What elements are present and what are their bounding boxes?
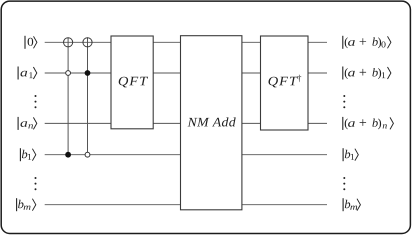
wire an segments <box>45 122 327 124</box>
control vertical line column 2 <box>87 37 89 154</box>
left vdots between b1 and bm <box>35 177 37 190</box>
QFT-dagger gate label <box>269 75 302 88</box>
right ket |(a+b)_1> text <box>345 68 386 79</box>
filled control on b1 column 1 <box>65 152 71 158</box>
wire q0 segments <box>45 41 327 43</box>
wire b1 segments <box>45 154 327 156</box>
left ket |bm> letters <box>18 200 30 210</box>
left ket |0> angle bracket <box>34 36 37 48</box>
right ket |(a+b)1> pipe <box>342 67 344 80</box>
right ket |b1> letters <box>345 150 355 160</box>
right ket |bm> letters <box>345 200 357 210</box>
right vdots between (a+b)1 and (a+b)n <box>343 95 345 108</box>
right ket |bm> angle bracket <box>357 199 360 211</box>
right ket |(a+b)_1> angle bracket <box>388 67 391 79</box>
right ket |(a+b)_0> text <box>345 37 386 48</box>
control vertical line column 1 <box>67 37 69 154</box>
left ket |0> pipe <box>24 36 26 49</box>
left ket |an> letters <box>21 121 34 128</box>
left ket |b1> letters <box>22 150 32 160</box>
left ket |a1> angle bracket <box>33 67 36 79</box>
left ket |b1> pipe <box>19 148 21 161</box>
left ket |an> pipe <box>17 117 19 130</box>
right ket |(a+b)_n> text <box>345 119 387 130</box>
left vdots between a1 and an <box>35 95 37 108</box>
right vdots between b1 and bm <box>343 177 345 190</box>
CNOT target on q0 column 2 <box>83 38 92 47</box>
left ket |bm> angle bracket <box>32 199 35 211</box>
right ket |(a+b)n> pipe <box>342 117 344 130</box>
left ket |b1> angle bracket <box>32 149 35 161</box>
NM Add gate box <box>181 36 242 210</box>
open control on b1 column 2 <box>85 152 90 157</box>
QFT gate label <box>119 77 148 88</box>
left ket |0> digit <box>28 38 34 46</box>
QFT gate box <box>111 36 153 129</box>
wire bm segments <box>45 204 327 206</box>
right ket |b1> angle bracket <box>355 149 358 161</box>
left ket |bm> pipe <box>16 198 18 211</box>
open control on a1 column 1 <box>66 71 71 76</box>
right ket |bm> pipe <box>342 198 344 211</box>
right ket |(a+b)_0> angle bracket <box>388 36 391 48</box>
left ket |a1> pipe <box>17 67 19 80</box>
CNOT target on q0 column 1 <box>64 38 73 47</box>
QFT-dagger gate box <box>261 36 309 130</box>
wire a1 segments <box>45 72 327 74</box>
right ket |(a+b)0> pipe <box>342 36 344 49</box>
filled control on a1 column 2 <box>85 70 91 76</box>
left ket |a1> letters <box>21 71 33 78</box>
NM Add gate label <box>188 117 236 126</box>
right ket |(a+b)_n> angle bracket <box>390 117 393 129</box>
right ket |b1> pipe <box>342 148 344 161</box>
left ket |an> angle bracket <box>33 117 36 129</box>
